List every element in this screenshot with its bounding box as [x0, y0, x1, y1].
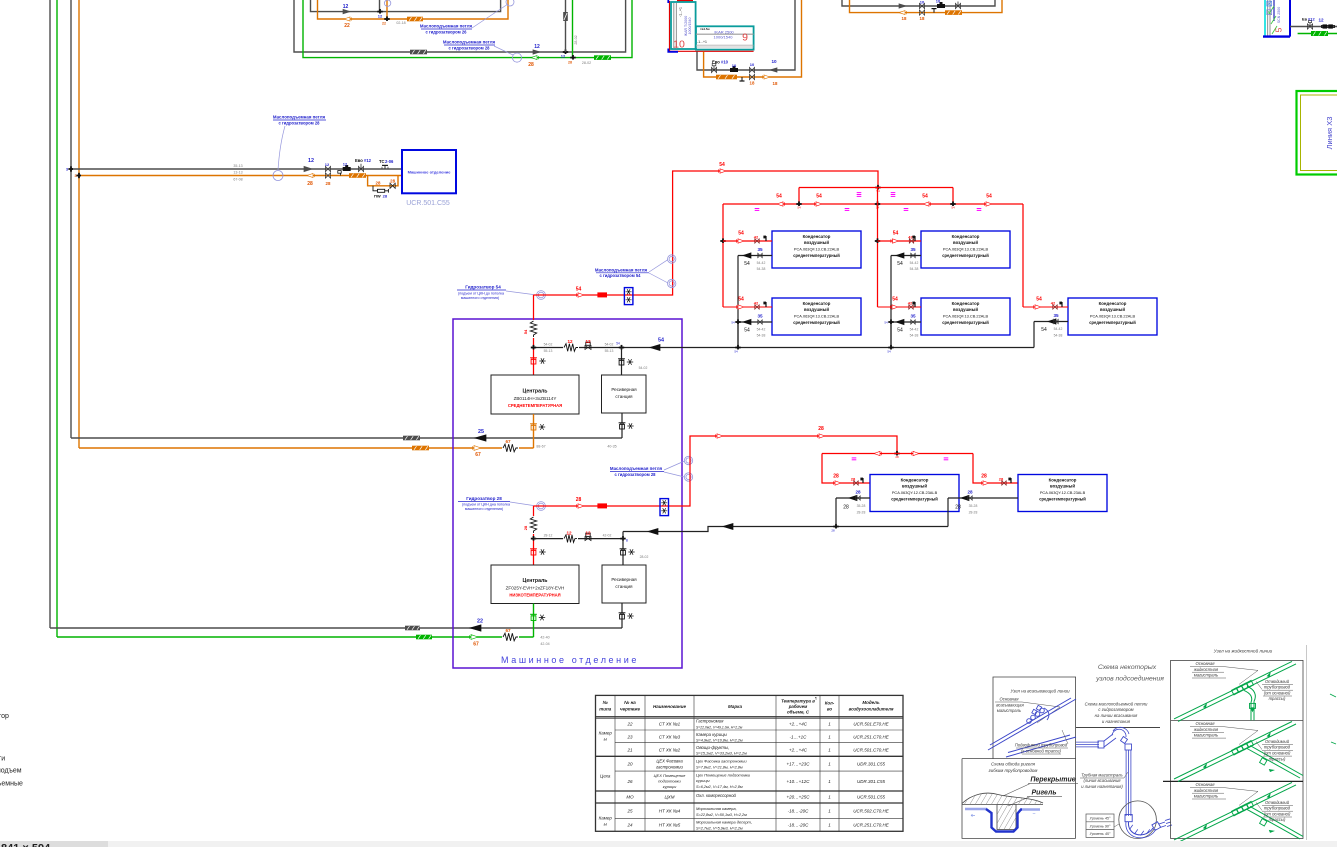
svg-text:2-06: 2-06: [385, 159, 394, 164]
node double circle 28: [537, 502, 546, 511]
svg-text:ти: ти: [0, 756, 5, 763]
valve gray 10: [919, 3, 924, 8]
svg-text:Централь: Централь: [523, 389, 548, 395]
svg-text:UCR.502.C70.HE: UCR.502.C70.HE: [853, 809, 890, 814]
svg-text:Конденсатор: Конденсатор: [952, 234, 980, 239]
wire orange drop to Evo10 line: [704, 0, 802, 77]
corner room tag cyan: [1264, 0, 1266, 37]
vibration damper 12 LT: [563, 534, 578, 544]
pressure tap flag: [338, 171, 341, 174]
svg-text:всасывающая: всасывающая: [996, 702, 1024, 707]
svg-text:трубопровод: трубопровод: [1264, 685, 1291, 690]
svg-text:28-28: 28-28: [857, 510, 866, 514]
svg-text:22: 22: [626, 722, 633, 727]
svg-text:35-28: 35-28: [857, 504, 866, 508]
svg-text:54-38: 54-38: [757, 334, 766, 338]
svg-text:с гидрозатвором 28: с гидрозатвором 28: [615, 472, 657, 477]
return KL1: [836, 497, 870, 499]
svg-text:25: 25: [626, 809, 633, 814]
svg-text:станция: станция: [615, 584, 633, 589]
feed K1: [720, 240, 725, 242]
svg-text:28: 28: [895, 455, 899, 459]
svg-text:воздушный: воздушный: [1050, 484, 1075, 489]
flow arrow orange 22: [344, 17, 350, 21]
leader C: [278, 126, 285, 170]
insulation red segment 28: [597, 503, 607, 508]
temp probe T: [933, 9, 935, 13]
svg-text:22: 22: [477, 619, 483, 625]
wire manifold level2 54: [799, 187, 953, 189]
liquid panel 2 pipe: [1174, 782, 1292, 840]
svg-text:узлов подсоединения: узлов подсоединения: [1095, 675, 1164, 683]
solenoid valve 10 on return: [730, 68, 738, 72]
svg-text:+17…+23С: +17…+23С: [786, 762, 810, 767]
valve Ev 12 corner: [1309, 22, 1311, 26]
svg-text:НИЗКОТЕМПЕРАТУРНАЯ: НИЗКОТЕМПЕРАТУРНАЯ: [509, 593, 560, 598]
svg-text:Трубная магистраль: Трубная магистраль: [1081, 772, 1123, 777]
flow arrow suction header 28 outer: [723, 524, 733, 530]
svg-text:54: 54: [1041, 327, 1047, 333]
solenoid valve Evo10: [713, 65, 715, 70]
svg-text:25: 25: [478, 429, 484, 435]
feed KL2: [983, 481, 989, 485]
wire MT compressor drop: [533, 295, 535, 375]
rule under text: [1076, 727, 1160, 729]
tiny green edge marks: [1330, 694, 1336, 697]
svg-text:Конденсатор: Конденсатор: [803, 234, 831, 239]
svg-text:S=4,9м2, V=10,8м, H=2,2м: S=4,9м2, V=10,8м, H=2,2м: [696, 739, 743, 743]
svg-text:объеме, С: объеме, С: [787, 710, 810, 715]
liquid panel 1 pipe: [1174, 722, 1292, 780]
svg-text:67: 67: [505, 439, 511, 444]
svg-text:-18…-20С: -18…-20С: [788, 809, 810, 814]
svg-text:-1...+1: -1...+1: [697, 40, 707, 44]
svg-text:Наименование: Наименование: [653, 704, 686, 709]
svg-text:10: 10: [936, 0, 941, 4]
insulation red segment: [597, 292, 607, 297]
return K2: [738, 321, 772, 323]
solenoid valve 10: [937, 4, 945, 8]
svg-text:(подъем от ЦКН до потолка: (подъем от ЦКН до потолка: [458, 291, 504, 295]
insulation liquid LT: [416, 635, 432, 640]
insulation suction MT: [403, 436, 420, 441]
svg-text:S=22,8м2, V=50,1м3, H=2,2м: S=22,8м2, V=50,1м3, H=2,2м: [696, 813, 747, 817]
svg-text:28: 28: [568, 60, 572, 64]
svg-text:гибким трубопроводом: гибким трубопроводом: [989, 768, 1038, 773]
svg-text:+2…+4С: +2…+4С: [789, 722, 808, 727]
wire gray drop to Evo10 line: [697, 0, 795, 70]
svg-text:Ево: Ево: [355, 158, 363, 163]
svg-text:Отводимый: Отводимый: [1265, 739, 1290, 744]
flow arrow liquid MT 67: [474, 446, 481, 451]
feed K5: [1023, 306, 1068, 308]
svg-text:54: 54: [893, 231, 899, 237]
liquid panels frame: [1171, 660, 1303, 838]
svg-text:35: 35: [757, 314, 763, 319]
valve receiver LT: [621, 550, 626, 555]
panel suction node frame: [993, 677, 1076, 838]
wire suction MT return: [71, 437, 622, 439]
insulation segment gray long line: [410, 50, 427, 55]
svg-text:Цех Фасовка гастрономии: Цех Фасовка гастрономии: [696, 759, 747, 764]
vibration damper liquid LT 67: [502, 632, 519, 642]
wire gray loop top right: [842, 0, 995, 6]
svg-text:Камера курицы: Камера курицы: [696, 732, 728, 737]
wire manifold 28 level2: [822, 453, 973, 455]
oil loop pipe drawing: [1076, 741, 1099, 743]
return K1: [738, 255, 772, 257]
svg-text:54: 54: [897, 261, 903, 267]
svg-text:12: 12: [585, 339, 591, 344]
svg-text:PCA.063QY.12.CB.23ALB: PCA.063QY.12.CB.23ALB: [892, 490, 938, 495]
svg-text:(подъем от ЦКН дна потолка: (подъем от ЦКН дна потолка: [462, 503, 510, 507]
svg-text:Централь: Централь: [523, 578, 548, 584]
svg-text:среднетемпературный: среднетемпературный: [942, 253, 989, 258]
wire manifold level3 54: [723, 203, 1023, 205]
svg-text:28-12: 28-12: [544, 534, 553, 538]
room tag box 10 vertical: [671, 2, 696, 49]
node circle on liquid line: [273, 171, 283, 181]
svg-text:Конденсатор: Конденсатор: [1099, 301, 1127, 306]
svg-text:с гидрозатвором: с гидрозатвором: [1098, 707, 1133, 712]
wire receiver LT drop: [622, 539, 624, 565]
svg-text:Машинное отделение: Машинное отделение: [501, 655, 639, 665]
svg-text:-18…-20С: -18…-20С: [788, 823, 810, 828]
svg-text:28: 28: [307, 181, 313, 187]
junction tee green 28: [570, 57, 575, 59]
svg-text:№: №: [603, 700, 609, 705]
liquid panel 0 fittings: [1231, 688, 1238, 695]
svg-text:Конденсатор: Конденсатор: [803, 301, 831, 306]
svg-text:Машинное отделение: Машинное отделение: [408, 170, 452, 175]
svg-text:54: 54: [719, 162, 725, 168]
liquid panel 2 branch: [1247, 809, 1300, 839]
svg-text:с гидрозатвором 26: с гидрозатвором 26: [426, 30, 468, 35]
svg-text:машинного отделения): машинного отделения): [465, 507, 503, 511]
rigel beam: [997, 805, 1016, 830]
svg-text:воздушный: воздушный: [804, 240, 829, 245]
svg-text:НТ ХК №4: НТ ХК №4: [659, 809, 681, 814]
condenser KL1: [870, 475, 959, 512]
insulation green corner: [1311, 31, 1328, 36]
svg-text:28-28: 28-28: [969, 510, 978, 514]
condenser K2: [772, 298, 861, 335]
svg-text:с гидрозатвором 54: с гидрозатвором 54: [600, 273, 642, 278]
svg-text:Уровень 45°: Уровень 45°: [1090, 832, 1111, 836]
junction suction 28: [833, 526, 838, 528]
svg-text:воздухоохладителя: воздухоохладителя: [849, 707, 894, 712]
svg-text:54: 54: [887, 350, 891, 354]
junction central LT: [620, 538, 625, 540]
svg-text:S=22,0м2, V=49,1,0м, H=2,2м: S=22,0м2, V=49,1,0м, H=2,2м: [696, 725, 743, 729]
svg-text:Уровень 90°: Уровень 90°: [1090, 824, 1111, 828]
svg-text:Овощи-фрукты,: Овощи-фрукты,: [696, 745, 729, 750]
svg-text:курицы: курицы: [663, 784, 677, 789]
svg-text:Марка: Марка: [728, 704, 742, 709]
filter drier DW28: [373, 186, 378, 191]
valve MT suction red: [531, 359, 536, 364]
svg-text:Линия Х3: Линия Х3: [1325, 117, 1334, 150]
room tag blue corner marks: [667, 0, 669, 3]
svg-text:Схема маслоподъемной петли: Схема маслоподъемной петли: [1085, 701, 1148, 706]
svg-text:21: 21: [626, 748, 633, 753]
svg-text:54-38: 54-38: [910, 334, 919, 338]
svg-text:ЦХМ: ЦХМ: [664, 795, 674, 800]
feed K4: [878, 306, 922, 308]
svg-text:67: 67: [505, 628, 511, 633]
svg-text:10: 10: [732, 63, 737, 68]
condenser K3: [921, 231, 1010, 268]
check valve 12 LT: [585, 537, 591, 541]
svg-text:28: 28: [376, 180, 381, 185]
svg-text:12: 12: [567, 339, 573, 344]
svg-text:подъем: подъем: [0, 768, 22, 775]
junction central MT: [619, 347, 624, 349]
svg-text:26: 26: [626, 779, 633, 784]
svg-text:54: 54: [738, 231, 744, 237]
svg-text:В: В: [626, 539, 628, 543]
svg-text:54: 54: [922, 194, 928, 200]
level labels box: [1086, 814, 1114, 837]
oil loop bottom bend: [1125, 815, 1132, 822]
svg-text:28: 28: [831, 529, 835, 533]
svg-text:Ево: Ево: [712, 60, 720, 65]
svg-text:жидкостная: жидкостная: [1193, 667, 1219, 672]
svg-text:НТ ХК №5: НТ ХК №5: [659, 823, 681, 828]
svg-text:28: 28: [955, 504, 961, 510]
svg-text:PCA.063QF.13.CB.22ALB: PCA.063QF.13.CB.22ALB: [794, 314, 840, 319]
valve on bypass: [390, 183, 395, 188]
svg-text:54: 54: [658, 337, 664, 343]
wire liquid to UCR box: [79, 175, 402, 177]
svg-text:трубопровод: трубопровод: [1264, 806, 1291, 811]
wire manifold drop right: [952, 188, 954, 205]
svg-text:З: З: [66, 168, 68, 172]
junction tee gray 12b: [563, 51, 568, 53]
flow arrows level3: [777, 202, 783, 206]
junction tees level3: [796, 203, 801, 205]
slab drawing: [962, 793, 1043, 803]
node circle on stub: [384, 0, 390, 6]
svg-text:54-02: 54-02: [544, 342, 553, 346]
svg-text:55-13: 55-13: [605, 349, 614, 353]
insulation segment orange: [407, 17, 423, 22]
leader hydro 54: [506, 291, 534, 295]
svg-text:18: 18: [773, 81, 778, 86]
svg-text:54-42: 54-42: [910, 327, 919, 331]
flow arrow gray 10: [899, 4, 906, 8]
detail circle: [1119, 801, 1157, 839]
compressor rack LT: [491, 565, 579, 604]
bypass liquid loop: [368, 176, 398, 186]
junction manifold 54 top: [875, 187, 880, 189]
insulation segment liquid: [349, 173, 366, 178]
flow arrow orange 18: [899, 11, 905, 15]
suction node fittings: [1031, 715, 1036, 720]
flow arrow suction 12: [304, 166, 312, 171]
svg-text:подготовки: подготовки: [658, 779, 681, 784]
pipe branch suction blue: [1006, 737, 1076, 757]
svg-text:1000/1540: 1000/1540: [714, 35, 734, 40]
corner tag fan icons: [1267, 1, 1272, 6]
return K3: [891, 255, 921, 257]
wire orange riser stub: [386, 0, 388, 19]
valve orange 18 evo line: [749, 74, 754, 79]
svg-text:№1.5м: №1.5м: [700, 27, 709, 31]
svg-text:Конденсатор: Конденсатор: [1049, 478, 1077, 483]
svg-text:(от основной: (от основной: [1264, 751, 1291, 756]
svg-text:54: 54: [892, 297, 898, 303]
svg-text:54-02: 54-02: [605, 342, 614, 346]
svg-text:24: 24: [626, 823, 633, 828]
svg-text:UCR.501.C55: UCR.501.C55: [857, 795, 886, 800]
wire gray from corner tag: [1290, 26, 1337, 28]
svg-text:Маслоподъемная петля: Маслоподъемная петля: [443, 40, 496, 45]
svg-text:среднетемпературный: среднетемпературный: [793, 320, 840, 325]
wire manifold drop left: [798, 188, 800, 205]
box machine room: [453, 319, 682, 668]
svg-text:10: 10: [750, 62, 755, 67]
flow arrow gray 12 long line: [533, 50, 540, 54]
svg-text:Охл. компрессорной: Охл. компрессорной: [696, 793, 737, 798]
wire liquid LT supply: [57, 636, 534, 638]
svg-text:Отводимый: Отводимый: [1265, 800, 1290, 805]
vibration damper vertical 54: [529, 320, 537, 338]
wire gray riser stub: [379, 0, 381, 12]
svg-text:ЦЕХ Фасовка: ЦЕХ Фасовка: [656, 759, 683, 764]
flow arrow 54 a: [578, 293, 584, 297]
svg-text:З: З: [74, 174, 76, 178]
svg-text:UCR.501.E70.HE: UCR.501.E70.HE: [853, 722, 889, 727]
svg-text:12: 12: [325, 162, 330, 167]
svg-text:35-28: 35-28: [969, 504, 978, 508]
svg-text:UCR.251.C70.HE: UCR.251.C70.HE: [853, 823, 890, 828]
svg-text:28: 28: [523, 525, 528, 530]
flow arrow liquid 28: [307, 174, 313, 178]
solenoid suction 12: [343, 167, 351, 171]
svg-text:трассы): трассы): [1269, 696, 1286, 701]
leader B: [494, 46, 513, 55]
svg-text:ZF025Y-EVH+2xZF18Y-EVH: ZF025Y-EVH+2xZF18Y-EVH: [506, 586, 565, 591]
vibration damper vertical 28: [529, 516, 537, 534]
svg-text:Температура в: Температура в: [781, 699, 815, 704]
svg-text:28: 28: [967, 490, 973, 495]
leaders oil 28: [664, 461, 685, 470]
svg-text:28: 28: [843, 504, 849, 510]
svg-text:воздушный: воздушный: [804, 307, 829, 312]
svg-text:54: 54: [776, 194, 782, 200]
liquid panel 1 fittings: [1231, 748, 1238, 755]
wire riser green: [56, 0, 58, 637]
junction LT drop: [531, 538, 536, 540]
flow arrow gray 10 left: [770, 68, 777, 72]
liquid panel 0 pipe: [1174, 661, 1292, 719]
svg-text:67: 67: [473, 642, 479, 648]
svg-text:Ев: Ев: [1302, 16, 1308, 21]
node circles riser 28: [684, 456, 692, 464]
wire liquid MT supply: [79, 447, 534, 449]
svg-text:¶: ¶: [815, 696, 817, 700]
svg-text:Основная: Основная: [1195, 782, 1215, 787]
svg-text:54-42: 54-42: [1054, 327, 1063, 331]
wire riser cond pair2: [877, 188, 879, 308]
svg-text:Морозильная камера десерт,: Морозильная камера десерт,: [696, 820, 752, 825]
svg-text:СТ ХК №3: СТ ХК №3: [659, 735, 681, 740]
svg-text:-1...+1: -1...+1: [679, 7, 683, 17]
svg-text:28: 28: [981, 474, 987, 480]
junction manifold 28: [894, 453, 899, 455]
svg-text:Уровень 45°: Уровень 45°: [1090, 817, 1111, 821]
junction tee suction: [70, 166, 72, 171]
svg-text:+2…+4С: +2…+4С: [789, 748, 808, 753]
svg-text:Цеха: Цеха: [600, 774, 611, 779]
svg-text:35: 35: [757, 247, 763, 252]
svg-text:Гастрономия: Гастрономия: [696, 719, 724, 724]
solenoid pair corner: [1323, 24, 1328, 28]
svg-text:Узел на всасывающей линии: Узел на всасывающей линии: [1010, 688, 1070, 693]
svg-text:среднетемпературный: среднетемпературный: [1089, 320, 1136, 325]
valve receiver LT out: [620, 614, 625, 619]
svg-text:54: 54: [523, 329, 528, 334]
corner tag blue borders: [1289, 0, 1291, 37]
flow arrow 54 top: [720, 169, 726, 173]
flow arrow suction header 28 inner: [648, 529, 658, 535]
svg-text:35: 35: [1053, 313, 1059, 318]
svg-text:трубопровод: трубопровод: [1264, 745, 1291, 750]
svg-text:54: 54: [738, 297, 744, 303]
condenser K5: [1068, 298, 1157, 335]
svg-text:18: 18: [750, 81, 755, 86]
wire gray riser stub b: [565, 0, 567, 52]
flow arrow orange 18 evo line: [764, 75, 770, 79]
valve receiver MT: [619, 360, 624, 365]
svg-text:IKAR T/2000: IKAR T/2000: [684, 16, 688, 37]
junction tee gray 12: [377, 11, 382, 13]
insulation suction LT: [405, 626, 420, 631]
svg-text:среднетемпературный: среднетемпературный: [793, 253, 840, 258]
temp sensor TC: [384, 165, 386, 169]
svg-text:Гидрозатвор 54: Гидрозатвор 54: [465, 285, 501, 290]
node circles riser 54: [668, 255, 676, 263]
svg-text:42-04: 42-04: [540, 642, 549, 646]
svg-text:жидкостная: жидкостная: [1193, 727, 1219, 732]
svg-text:(от основной: (от основной: [1264, 811, 1291, 816]
svg-text:воздушный: воздушный: [953, 307, 978, 312]
svg-text:Узел на жидкостной линии: Узел на жидкостной линии: [1214, 648, 1273, 654]
svg-text:ПW: ПW: [374, 193, 381, 198]
svg-text:МО: МО: [626, 795, 634, 800]
svg-text:54: 54: [731, 320, 735, 324]
svg-text:═: ═: [1032, 812, 1036, 816]
svg-text:54: 54: [744, 328, 750, 334]
valve MT liquid: [531, 425, 536, 430]
svg-text:S=2,7м2, V=5,9м3, H=2,2м: S=2,7м2, V=5,9м3, H=2,2м: [696, 827, 743, 831]
svg-text:(к основной трассе): (к основной трассе): [1021, 749, 1062, 754]
svg-text:18: 18: [920, 16, 925, 21]
svg-text:PCA.063QY.12.CB.23ALB: PCA.063QY.12.CB.23ALB: [1040, 490, 1086, 495]
valve liquid 28: [325, 173, 330, 178]
svg-text:Камер: Камер: [599, 816, 613, 821]
valve suction 12: [325, 166, 330, 171]
svg-text:Ригель: Ригель: [1032, 790, 1057, 797]
pipe main suction blue: [988, 699, 1076, 750]
svg-text:Отводимый: Отводимый: [1265, 679, 1290, 684]
flow arrow suction header: [650, 345, 660, 351]
svg-text:54-42: 54-42: [757, 327, 766, 331]
feed KL1: [835, 481, 841, 485]
vibration damper liquid MT 67: [502, 443, 519, 453]
svg-text:841 × 594: 841 × 594: [1, 843, 51, 848]
